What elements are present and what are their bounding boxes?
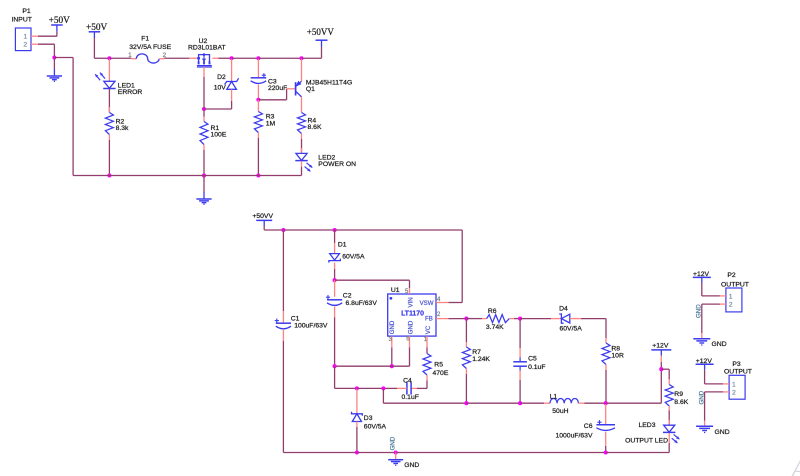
svg-text:U1: U1 [391, 287, 400, 294]
svg-text:GND: GND [404, 462, 419, 469]
wire base node to R3 [257, 100, 259, 112]
wire C5 tap to D4 [520, 318, 551, 320]
svg-text:P1: P1 [22, 8, 31, 15]
svg-text:A: A [789, 455, 800, 476]
ground GND (bottom rail) [388, 453, 419, 470]
power +50V (P1) [49, 16, 71, 31]
svg-text:60V/5A: 60V/5A [364, 423, 387, 430]
svg-text:C5: C5 [528, 355, 537, 362]
resistor R4 8.6K [298, 113, 322, 140]
junction gnd net / C4 [381, 386, 385, 390]
svg-text:10R: 10R [611, 352, 624, 359]
connector P1 INPUT [11, 8, 38, 50]
wire R2 to bottom rail [108, 140, 110, 176]
resistor R6 3.74K [482, 308, 514, 331]
wire gnd net to C2 [335, 365, 392, 367]
svg-text:LED3: LED3 [638, 422, 655, 429]
svg-text:1M: 1M [266, 120, 276, 127]
svg-text:RD3L01BAT: RD3L01BAT [188, 44, 226, 51]
junction P1 gnd node [52, 55, 56, 59]
wire LED1 to R2 [108, 89, 110, 113]
junction FB / C5 [518, 317, 522, 321]
svg-text:1: 1 [729, 294, 733, 301]
wire P1.2 to gnd node [38, 44, 54, 57]
wire bottom rail2 left [283, 452, 357, 454]
svg-text:100E: 100E [211, 132, 227, 139]
wire C1 to bottom rail2 [282, 341, 284, 453]
svg-text:+12V: +12V [652, 343, 669, 350]
power +12V (P2) [693, 271, 711, 283]
wire C3 tap to Q1 tap [258, 57, 301, 59]
svg-text:1: 1 [23, 34, 27, 41]
svg-text:GND: GND [698, 390, 705, 404]
junction bottom rail2 / GND [394, 450, 398, 454]
junction rail2 / C1 [281, 228, 285, 232]
wire +50V stem [94, 38, 109, 58]
svg-text:OUTPUT LED: OUTPUT LED [625, 438, 668, 445]
capacitor C5 0.1uF [513, 319, 545, 404]
resistor R1 100E [200, 117, 227, 151]
svg-text:R5: R5 [434, 362, 443, 369]
junction rail2 / D1 [333, 228, 337, 232]
wire rail to F1 [109, 57, 131, 59]
capacitor C4 0.1uF [383, 378, 418, 402]
svg-text:R8: R8 [611, 345, 620, 352]
power +50VV (lower) [252, 213, 273, 226]
svg-text:3.74K: 3.74K [486, 324, 504, 331]
junction bottom rail / R1 [202, 173, 206, 177]
power +12V (LED3) [651, 343, 671, 362]
net label GND (P3) [698, 390, 705, 404]
wire P2.2 to gnd [702, 304, 720, 333]
wire F1 to U2 [164, 57, 189, 59]
junction top rail / LED1 [107, 56, 111, 60]
svg-text:P3: P3 [732, 361, 741, 368]
svg-text:8.6K: 8.6K [674, 399, 688, 406]
resistor R3 1M [254, 112, 275, 139]
svg-text:R9: R9 [674, 391, 683, 398]
svg-text:L1: L1 [550, 394, 558, 401]
wire D4 to R8 [581, 319, 606, 338]
junction gnd net / C2 [333, 364, 337, 368]
wire R1 to bottom rail [203, 150, 205, 176]
wire U2 gate down [203, 67, 205, 117]
svg-text:C4: C4 [403, 378, 412, 385]
ground (top section) [196, 176, 211, 205]
wire P3.2 to gnd [705, 392, 724, 421]
svg-text:8.6K: 8.6K [308, 124, 322, 131]
connector P2 OUTPUT [720, 272, 749, 312]
capacitor C1 100uF/63V [275, 230, 328, 341]
wire junction to R9 [661, 369, 669, 379]
svg-text:R7: R7 [472, 349, 481, 356]
watermark letter A [789, 455, 800, 476]
junction top rail / D2 [230, 56, 234, 60]
net label GND (bottom) [389, 436, 396, 450]
capacitor C6 1000uF/63V [555, 404, 615, 453]
LED1 ERROR [95, 59, 142, 96]
svg-text:GND: GND [696, 304, 703, 318]
svg-text:GND: GND [408, 320, 415, 334]
wire FB to R7 tap [448, 318, 466, 320]
wire C2 gnd corner [335, 366, 357, 388]
power +12V (P3) [696, 358, 714, 370]
resistor R5 470E [417, 348, 449, 389]
wire U2 to D2 tap [218, 57, 231, 59]
svg-text:100uF/63V: 100uF/63V [294, 323, 328, 330]
zener diode D3 60V/5A [352, 389, 387, 453]
wire U1 pin6 down [392, 348, 410, 367]
ground GND (P3) [696, 421, 730, 436]
svg-text:10V: 10V [214, 84, 227, 91]
junction bottom rail2 / C6 [604, 450, 608, 454]
svg-text:+50VV: +50VV [252, 213, 273, 220]
junction FB / R7 [464, 317, 468, 321]
wire R3 to bottom rail [257, 138, 259, 176]
wire +50VV to rail2 [264, 226, 283, 230]
transistor Q1 MJB45H11T4G [296, 59, 353, 113]
svg-text:470E: 470E [433, 370, 449, 377]
junction bottom rail2 / D3 [355, 450, 359, 454]
wire R8 to out rail [605, 370, 607, 403]
svg-text:1: 1 [128, 52, 132, 59]
LED2 POWER ON [295, 148, 356, 171]
svg-text:GND: GND [389, 436, 396, 450]
wire R9 to LED3 [668, 411, 670, 425]
wire LED2 to bottom rail [301, 161, 303, 176]
junction gnd net pin3 [390, 364, 394, 368]
junction gate node [202, 107, 206, 111]
net label GND (P2) [696, 304, 703, 318]
svg-text:F1: F1 [141, 35, 149, 42]
wire +12V to P2.1 [702, 283, 720, 296]
capacitor C2 6.8uF/63V [326, 280, 377, 366]
wire D3 tap to C4 tap [357, 387, 384, 389]
svg-text:60V/5A: 60V/5A [560, 325, 583, 332]
wire VIN node to U1 [335, 280, 410, 288]
wire +12V to P3.1 [705, 370, 724, 384]
zener diode D2 10V [214, 59, 239, 101]
wire gnd node to bottom rail [54, 58, 73, 176]
wire U1 pin3 down [391, 348, 393, 367]
svg-text:ERROR: ERROR [118, 89, 143, 96]
svg-text:VIN: VIN [408, 297, 415, 307]
inductor L1 50uH [544, 394, 584, 416]
junction +12V / R9 [659, 367, 663, 371]
wire C6 tap to +12V corner [606, 369, 662, 403]
wire L1 to C6 tap [584, 402, 605, 404]
wire bottom rail2 D3-GND [357, 452, 396, 454]
wire R7 tap to R6 [466, 318, 482, 320]
svg-text:D1: D1 [338, 241, 347, 248]
ground (P1) [47, 58, 62, 82]
svg-text:0.1uF: 0.1uF [402, 394, 419, 401]
svg-text:D3: D3 [364, 415, 373, 422]
svg-text:+12V: +12V [693, 271, 710, 278]
svg-text:VSW: VSW [420, 300, 434, 307]
svg-text:+12V: +12V [696, 358, 713, 365]
svg-text:POWER ON: POWER ON [318, 161, 356, 168]
svg-text:2: 2 [732, 390, 736, 397]
junction top rail / Q1 [299, 56, 303, 60]
capacitor C3 220uF [251, 59, 288, 100]
wire P1.1 to +50V [38, 31, 57, 36]
fuse F1 32V/5A [128, 35, 171, 63]
svg-text:32V/5A FUSE: 32V/5A FUSE [129, 44, 171, 51]
LED3 OUTPUT LED [625, 420, 679, 445]
svg-text:1.24K: 1.24K [472, 356, 490, 363]
diode D4 60V/5A [551, 306, 582, 333]
resistor R9 8.6K [665, 379, 689, 410]
svg-text:2: 2 [729, 302, 733, 309]
svg-text:FB: FB [425, 316, 433, 323]
resistor R8 10R [602, 338, 624, 370]
svg-text:INPUT: INPUT [11, 17, 31, 24]
wire D2 tap to C3 tap [232, 57, 259, 59]
resistor R2 8.3k [105, 107, 129, 140]
mosfet U2 RD3L01BAT [188, 38, 226, 67]
wire Q1 tap to +50VV [302, 47, 322, 58]
wire out rail R7-C5 [466, 402, 520, 404]
resistor R7 1.24K [462, 319, 490, 404]
svg-text:2: 2 [23, 42, 27, 49]
wire out rail C5 to L1 [520, 402, 544, 404]
ground GND (P2) [693, 333, 726, 348]
svg-text:+50V: +50V [49, 16, 71, 26]
svg-text:GND: GND [389, 320, 396, 334]
svg-text:1000uF/63V: 1000uF/63V [555, 433, 593, 440]
svg-text:D4: D4 [559, 306, 568, 313]
wire R4 to LED2 [301, 139, 303, 153]
svg-text:C1: C1 [291, 315, 300, 322]
svg-text:GND: GND [715, 429, 730, 436]
svg-text:6.8uF/63V: 6.8uF/63V [346, 300, 378, 307]
junction out rail / C6 [604, 401, 608, 405]
svg-text:0.1uF: 0.1uF [528, 364, 545, 371]
svg-text:LT1170: LT1170 [401, 311, 424, 318]
power +50V (main rail) [86, 23, 108, 38]
svg-text:+50V: +50V [86, 23, 108, 33]
wire top-section bottom rail [73, 175, 301, 177]
connector P3 OUTPUT [723, 361, 752, 399]
svg-text:R6: R6 [488, 308, 497, 315]
svg-text:220uF: 220uF [268, 85, 287, 92]
svg-text:OUTPUT: OUTPUT [721, 281, 749, 288]
svg-text:GND: GND [712, 341, 727, 348]
wire +12V to junction [660, 362, 662, 369]
svg-text:1: 1 [732, 382, 736, 389]
svg-text:50uH: 50uH [552, 408, 568, 415]
junction out rail / C5 [518, 401, 522, 405]
junction gnd net / D3 [355, 386, 359, 390]
op-amp U1 LT1170 [388, 287, 449, 348]
wire rail2 D1 to VSW corner [335, 230, 463, 303]
junction C3 / base node [256, 98, 260, 102]
svg-text:Q1: Q1 [306, 86, 315, 93]
wire base node to Q1 [258, 89, 295, 100]
power +50VV (top) [307, 27, 335, 47]
svg-text:+50VV: +50VV [307, 27, 335, 37]
wire R6 to C5 tap [514, 318, 520, 320]
junction D1 / VIN node [333, 278, 337, 282]
wire D2 to gate node [204, 101, 232, 109]
svg-text:P2: P2 [727, 272, 736, 279]
junction bottom rail / R3 [256, 173, 260, 177]
svg-text:C6: C6 [584, 423, 593, 430]
wire LED3 to bottom rail2 [668, 433, 670, 443]
svg-text:D2: D2 [217, 74, 226, 81]
diode D1 60V/5A [329, 230, 365, 280]
junction top rail / C3 [256, 56, 260, 60]
wire bottom rail2 GND-C6 [396, 452, 606, 454]
wire gnd net to out rail [383, 388, 466, 403]
svg-text:VC: VC [425, 325, 432, 334]
svg-text:8.3k: 8.3k [116, 125, 129, 132]
svg-text:C2: C2 [343, 293, 352, 300]
junction out rail / R7 [464, 401, 468, 405]
wire bottom rail2 C6-LED3 [606, 443, 670, 453]
svg-text:60V/5A: 60V/5A [342, 253, 365, 260]
svg-text:OUTPUT: OUTPUT [724, 368, 752, 375]
junction bottom rail / R2 [107, 173, 111, 177]
wire rail2 C1-D1 [283, 229, 334, 231]
